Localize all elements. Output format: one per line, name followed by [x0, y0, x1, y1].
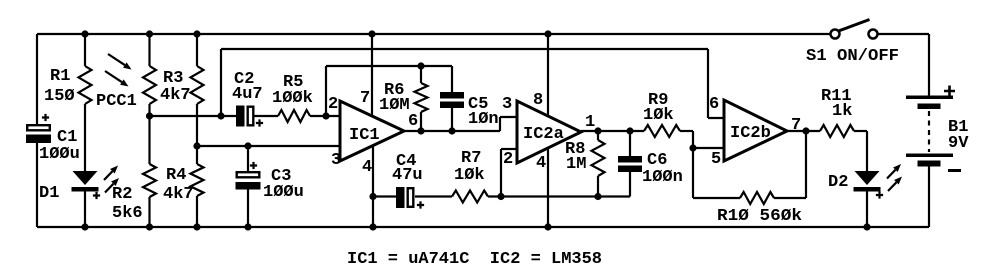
- svg-text:D1: D1: [39, 184, 59, 203]
- svg-text:R1: R1: [50, 67, 70, 86]
- svg-text:2: 2: [328, 95, 338, 114]
- svg-text:IC1 = uA741C IC2 = LM358: IC1 = uA741C IC2 = LM358: [347, 250, 602, 269]
- svg-text:15Ø: 15Ø: [44, 87, 75, 106]
- svg-text:1ØM: 1ØM: [379, 96, 410, 115]
- svg-text:8: 8: [533, 91, 543, 110]
- svg-text:1ØØk: 1ØØk: [272, 89, 313, 108]
- svg-text:4: 4: [362, 158, 372, 177]
- svg-text:R1Ø 56Øk: R1Ø 56Øk: [717, 207, 802, 226]
- svg-text:R4: R4: [166, 166, 186, 185]
- svg-text:6: 6: [408, 112, 418, 131]
- svg-text:1ØØu: 1ØØu: [263, 183, 304, 202]
- svg-text:1M: 1M: [566, 155, 586, 174]
- svg-text:3: 3: [502, 95, 512, 114]
- svg-text:IC1: IC1: [349, 126, 380, 145]
- svg-text:R2: R2: [112, 185, 132, 204]
- svg-text:47u: 47u: [392, 166, 423, 185]
- svg-text:1ØØu: 1ØØu: [39, 145, 80, 164]
- svg-text:6: 6: [709, 95, 719, 114]
- svg-text:4k7: 4k7: [163, 185, 194, 204]
- svg-text:7: 7: [791, 116, 801, 135]
- svg-text:1k: 1k: [832, 102, 852, 121]
- svg-text:1Øn: 1Øn: [468, 110, 499, 129]
- svg-text:2: 2: [503, 150, 513, 169]
- svg-text:4u7: 4u7: [232, 85, 263, 104]
- svg-text:3: 3: [331, 151, 341, 170]
- svg-text:4: 4: [536, 154, 546, 173]
- svg-text:PCC1: PCC1: [96, 92, 137, 111]
- svg-text:9V: 9V: [948, 134, 969, 153]
- svg-text:1Øk: 1Øk: [454, 166, 485, 185]
- svg-text:IC2b: IC2b: [730, 124, 771, 143]
- svg-text:1: 1: [585, 113, 595, 132]
- svg-text:5: 5: [711, 150, 721, 169]
- svg-text:5k6: 5k6: [112, 204, 143, 223]
- svg-text:D2: D2: [828, 173, 848, 192]
- svg-text:S1 ON/OFF: S1 ON/OFF: [806, 47, 899, 66]
- svg-text:IC2a: IC2a: [523, 125, 564, 144]
- svg-text:1Øk: 1Øk: [643, 106, 674, 125]
- svg-text:4k7: 4k7: [160, 86, 191, 105]
- svg-text:1ØØn: 1ØØn: [642, 168, 683, 187]
- svg-text:7: 7: [360, 89, 370, 108]
